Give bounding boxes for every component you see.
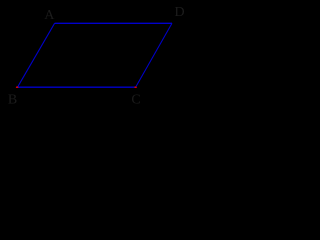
svg-text:A: A [44,8,55,23]
node B: red point [16,86,19,88]
wire: parallelogram edge BA (left) [18,23,55,87]
wire: parallelogram edge AD (top) [55,22,172,24]
svg-text:C: C [131,92,140,107]
wire: parallelogram edge DC (right) [136,23,172,87]
svg-text:D: D [174,5,184,20]
wire: parallelogram edge CB (bottom) [18,86,136,88]
svg-text:B: B [8,92,17,107]
node C: red point [134,86,137,88]
